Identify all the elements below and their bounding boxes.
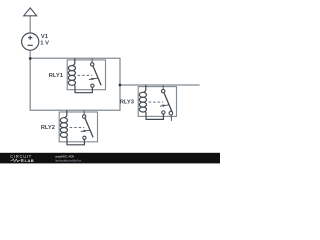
svg-text:http://circuitlab.com/c/8ra7mx: http://circuitlab.com/c/8ra7mxl [55,159,81,162]
svg-text:RLY1: RLY1 [49,73,64,79]
svg-text:amuta97671 / NOR: amuta97671 / NOR [55,155,74,158]
svg-text:RLY3: RLY3 [120,100,135,106]
svg-text:LAB: LAB [25,159,35,163]
svg-text:RLY2: RLY2 [41,125,55,131]
svg-text:1 V: 1 V [40,41,49,47]
svg-text:V1: V1 [41,34,49,40]
